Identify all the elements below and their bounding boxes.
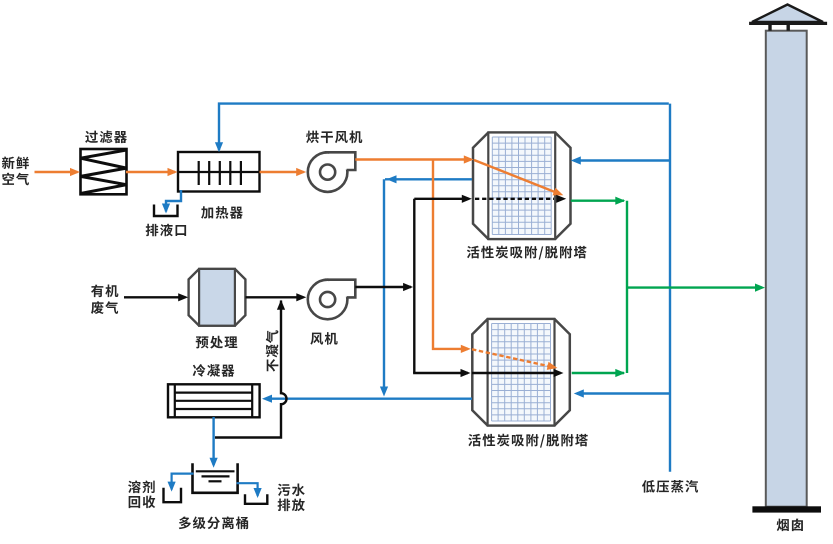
separator barrel: [193, 463, 238, 493]
heater element: [179, 161, 259, 185]
wire orange heater to drying fan: [260, 168, 307, 176]
wire orange hot air diagonal tower1: [474, 160, 563, 195]
drain port cup: [154, 205, 178, 217]
label waste water line2: [278, 498, 305, 511]
adsorption tower 1 shell and grid: [473, 133, 571, 240]
condenser shell: [168, 384, 260, 417]
wire blue condenser to separator: [210, 417, 218, 468]
label heater: [201, 206, 243, 219]
wire blue steam branch to tower1: [571, 156, 670, 164]
wire black junction vertical: [413, 199, 415, 373]
wire blue heater drain to port: [162, 190, 181, 214]
label process fan: [310, 332, 337, 345]
wire blue steam top run to heater: [215, 104, 669, 153]
label fresh air line2: [2, 173, 29, 186]
label solvent line2: [129, 496, 156, 509]
wire black junction to tower2: [413, 369, 470, 377]
waste water cup: [245, 494, 267, 504]
process fan: [308, 280, 348, 320]
wire green to chimney: [627, 284, 765, 292]
wire blue condensate header to condenser: [262, 395, 472, 403]
condenser internals: [175, 385, 252, 417]
wire orange branch down to tower2: [433, 160, 471, 354]
wire black junction to tower1: [414, 195, 472, 203]
pretreatment unit: [189, 269, 246, 326]
label tower2: [468, 434, 588, 448]
label organic gas line2: [91, 301, 118, 314]
label organic gas line1: [91, 285, 118, 298]
wire black fan to junction: [355, 283, 413, 291]
label solvent line1: [128, 480, 155, 493]
label waste water line1: [278, 484, 305, 497]
label fresh air line1: [2, 156, 29, 169]
wire orange fresh air inlet: [35, 168, 81, 176]
wire blue separator solvent out: [168, 474, 194, 492]
wire black non-condensable riser: [215, 300, 287, 438]
wire green tower1 exhaust: [571, 197, 626, 205]
label filter: [85, 131, 127, 144]
chimney base: [752, 506, 821, 512]
label condenser: [193, 364, 235, 377]
wire black pretreat to fan: [246, 293, 307, 301]
wire blue tower1 condensate vertical: [380, 179, 388, 396]
heater box: [178, 152, 260, 192]
label chimney: [777, 518, 803, 531]
wire blue steam branch to tower2: [574, 389, 670, 397]
separator liquid level: [196, 471, 235, 481]
label non-condensable: [266, 330, 279, 371]
wire green tower2 exhaust: [572, 369, 626, 377]
drying fan: [308, 152, 348, 192]
label pretreatment: [196, 336, 238, 349]
wire orange drying fan to tower1: [355, 155, 474, 163]
chimney cap: [752, 5, 823, 23]
wire blue separator waste out: [237, 483, 262, 498]
filter box: [81, 149, 127, 194]
wire orange dashed diagonal tower2: [472, 349, 557, 370]
label drying fan: [306, 131, 362, 144]
label separator: [179, 516, 248, 529]
wire black dashed through tower1: [475, 195, 566, 203]
adsorption tower 2 shell and grid: [472, 319, 570, 426]
wire black solid through tower2: [472, 369, 564, 377]
label tower1: [467, 246, 587, 260]
label drain port: [146, 224, 186, 237]
wire black waste gas inlet: [124, 293, 188, 301]
label steam: [642, 480, 698, 493]
wire blue steam manifold vertical: [669, 104, 671, 472]
wire orange filter to heater: [126, 168, 178, 176]
solvent recovery cup: [164, 488, 182, 502]
wire blue tower1 condensate down: [385, 175, 472, 183]
chimney body: [766, 31, 807, 507]
wire green manifold vertical: [626, 201, 628, 373]
